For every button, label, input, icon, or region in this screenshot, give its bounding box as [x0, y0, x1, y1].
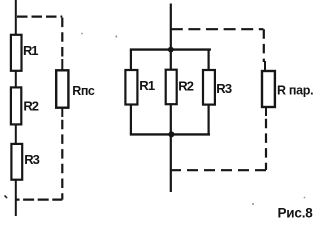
wire dashed equivalence bottom (parallel)	[171, 169, 266, 171]
wire top feed of series chain	[15, 0, 17, 35]
resistor R3 (parallel group)	[203, 70, 215, 105]
wire R1 to bottom rail	[130, 105, 132, 135]
wire R1 to R2	[15, 71, 17, 88]
stray speck	[115, 36, 117, 38]
wire top rail of parallel group	[130, 48, 211, 50]
svg-text:R пар.: R пар.	[277, 84, 313, 98]
wire dashed right branch lower (series)	[61, 117, 63, 200]
wire R3 to bottom rail	[208, 105, 210, 135]
resistor R2 (parallel group)	[166, 70, 177, 105]
stray mark	[5, 196, 8, 199]
wire stub above Rpc	[61, 59, 63, 71]
node bottom junction	[168, 131, 174, 137]
resistor R2 (series chain)	[11, 87, 21, 124]
node top junction	[168, 47, 174, 53]
resistor Rpc (series equivalent)	[56, 70, 68, 107]
wire R2 to bottom rail	[170, 104, 172, 134]
svg-text:R1: R1	[23, 43, 38, 58]
wire dashed right branch upper (parallel)	[263, 29, 265, 62]
resistor R3 (series chain)	[11, 144, 22, 180]
svg-text:R2: R2	[23, 98, 38, 113]
wire rail to R1	[130, 50, 132, 71]
wire dashed equivalence top (parallel)	[171, 28, 264, 30]
resistor R1 (parallel group)	[125, 70, 137, 105]
stray speck	[81, 33, 83, 35]
wire stub above Rpar	[264, 61, 266, 71]
svg-text:R1: R1	[139, 78, 155, 93]
svg-text:R3: R3	[24, 152, 39, 167]
wire dashed right branch lower (parallel)	[265, 116, 267, 170]
wire dashed right branch upper (series)	[61, 18, 63, 60]
svg-text:R2: R2	[178, 79, 194, 94]
svg-text:Рис.8: Рис.8	[278, 206, 314, 221]
wire rail to R3	[208, 50, 210, 71]
resistor R1 (series chain)	[11, 35, 22, 71]
resistor Rpar (parallel equivalent)	[262, 71, 275, 107]
svg-text:R3: R3	[216, 81, 232, 96]
stray speck	[252, 203, 254, 205]
wire top feed of parallel group	[170, 4, 172, 50]
wire bottom feed of parallel group	[170, 134, 172, 192]
wire dashed equivalence bottom (series)	[16, 199, 62, 201]
wire bottom feed of series chain	[15, 180, 17, 216]
wire rail to R2	[170, 50, 172, 70]
stray speck	[304, 197, 306, 199]
svg-text:Rпс: Rпс	[72, 84, 95, 98]
wire stub below Rpc	[61, 108, 63, 117]
wire stub below Rpar	[265, 107, 267, 116]
wire bottom rail of parallel group	[130, 133, 210, 135]
wire R2 to R3	[15, 124, 17, 143]
wire dashed equivalence top (series)	[17, 16, 62, 18]
